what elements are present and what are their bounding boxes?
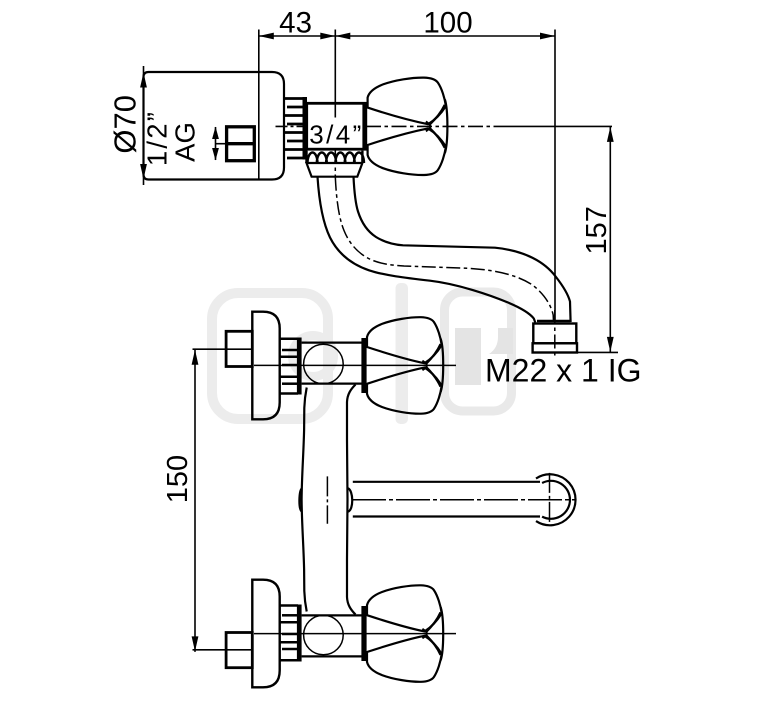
arrow 157 bottom: [607, 337, 614, 352]
watermark glyph 1 rounded square: [212, 293, 328, 419]
column center mark: [326, 476, 328, 523]
svg-text:AG: AG: [170, 122, 201, 162]
valve cylinder front: [302, 342, 362, 344]
spout flange bulge left: [299, 488, 302, 511]
dim line 43: [259, 35, 336, 37]
cylinder sphere circle: [304, 344, 344, 384]
wall thread (3/4 connection): [284, 99, 304, 159]
svg-text:3/4”: 3/4”: [309, 120, 363, 150]
thread end bar front: [297, 338, 302, 395]
dim 43 extension line wall: [258, 30, 260, 179]
handle hub bell side view: [430, 100, 448, 154]
hex union nut front: [226, 331, 252, 366]
dim 150 line: [194, 349, 196, 652]
dim 157 bottom extension: [577, 351, 618, 353]
handle waist pinch front: [422, 361, 427, 371]
svg-text:157: 157: [581, 206, 613, 254]
arrow 43 right: [320, 33, 335, 40]
dim 150 extension line: [193, 348, 253, 350]
dim extension line aerator: [554, 30, 556, 323]
svg-text:1/2”: 1/2”: [142, 110, 173, 166]
spout flange bulge right: [348, 488, 352, 511]
body drop tube left edge: [302, 388, 307, 500]
mirrored bottom assembly: [193, 500, 458, 688]
dim Ø70 line arrows: [140, 73, 147, 88]
wall flange front: [252, 312, 279, 420]
spout outer edge: [318, 177, 536, 323]
thread-body bar: [303, 97, 308, 160]
spout inner edge: [354, 177, 571, 322]
watermark glyph 1 circle: [293, 336, 334, 377]
handle lower lobe side view: [368, 128, 446, 175]
arrow 43 left: [259, 33, 274, 40]
union nut knurl scallops: [307, 151, 365, 163]
handle collar side view: [362, 103, 367, 150]
aerator centerline: [554, 310, 556, 358]
valve body 3/4 box: [307, 103, 366, 149]
body drop tube right edge: [347, 385, 356, 500]
handle collar front: [361, 338, 366, 393]
arrow 100 right: [540, 33, 555, 40]
watermark glyph 3 inner bar: [455, 328, 481, 385]
dim extension line valve axis: [334, 30, 336, 118]
dim 157 line: [609, 126, 611, 352]
front spout bottom edge: [353, 515, 540, 517]
handle upper lobe side view: [368, 78, 446, 125]
svg-text:Ø70: Ø70: [108, 95, 143, 154]
aerator body: [533, 321, 577, 353]
handle upper lobe front: [367, 317, 442, 363]
dim 1/2 arrows: [215, 127, 217, 160]
svg-text:100: 100: [423, 7, 472, 40]
dim line 100: [335, 35, 555, 37]
dim 157 axis extension: [366, 125, 500, 127]
watermark logo background: [212, 283, 513, 424]
front spout centerline: [352, 499, 575, 501]
watermark glyph 3 inner square: [489, 328, 513, 354]
spout end vertical centerline: [549, 473, 551, 525]
union nut cone: [307, 163, 363, 177]
thread ridges front: [280, 337, 298, 340]
svg-text:43: 43: [279, 7, 312, 40]
1/2" nipple box: [227, 127, 255, 161]
front spout end outer arc: [536, 474, 576, 525]
dim 150: [192, 349, 199, 652]
handle lower lobe front: [367, 368, 442, 414]
spout centerline: [335, 150, 553, 322]
arrow 157 top: [607, 127, 614, 142]
arrow 150 top: [192, 350, 199, 365]
front spout top edge: [353, 481, 540, 483]
svg-text:150: 150: [162, 455, 194, 503]
centerline across threads side view: [276, 125, 307, 127]
svg-text:M22 x 1 IG: M22 x 1 IG: [485, 352, 642, 388]
watermark glyph 3 rounded square: [445, 292, 512, 411]
arrow 100 left: [335, 33, 350, 40]
axis centerline front: [254, 364, 446, 366]
watermark glyph 2 stem: [396, 283, 409, 424]
handle waist pinch side view: [426, 122, 431, 132]
nipple leader line: [216, 143, 227, 145]
wall plate (rosette) side view: [144, 72, 285, 180]
arrow 150 bottom: [192, 636, 199, 651]
handle hub bell front: [426, 339, 443, 392]
center column extras: [299, 474, 575, 525]
front spout end inner arc: [542, 481, 570, 519]
